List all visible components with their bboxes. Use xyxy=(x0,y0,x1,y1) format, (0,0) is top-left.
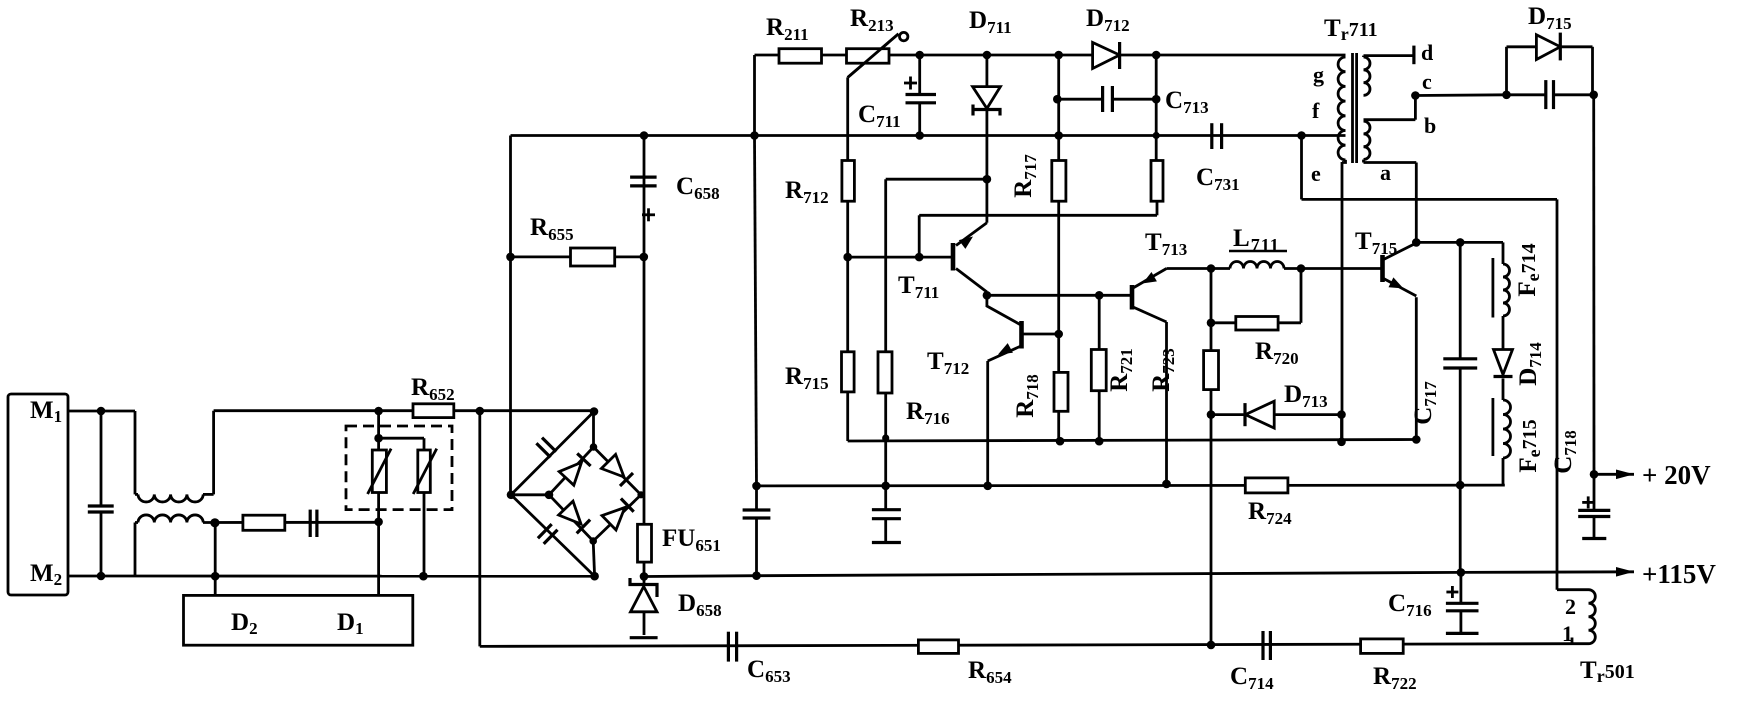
svg-text:Fe715: Fe715 xyxy=(1515,419,1544,472)
svg-text:g: g xyxy=(1313,62,1324,87)
svg-text:+ 20V: + 20V xyxy=(1642,460,1711,490)
svg-text:b: b xyxy=(1424,113,1436,138)
svg-text:d: d xyxy=(1421,40,1433,65)
svg-text:Fe714: Fe714 xyxy=(1514,243,1543,296)
svg-text:f: f xyxy=(1312,98,1320,123)
svg-text:a: a xyxy=(1380,160,1391,185)
svg-text:2: 2 xyxy=(1565,594,1576,619)
svg-text:c: c xyxy=(1422,69,1432,94)
svg-text:+115V: +115V xyxy=(1642,559,1716,589)
svg-text:1: 1 xyxy=(1562,621,1573,646)
svg-text:Tr711: Tr711 xyxy=(1324,15,1378,44)
svg-text:e: e xyxy=(1311,161,1321,186)
svg-text:Tr501: Tr501 xyxy=(1580,657,1635,686)
